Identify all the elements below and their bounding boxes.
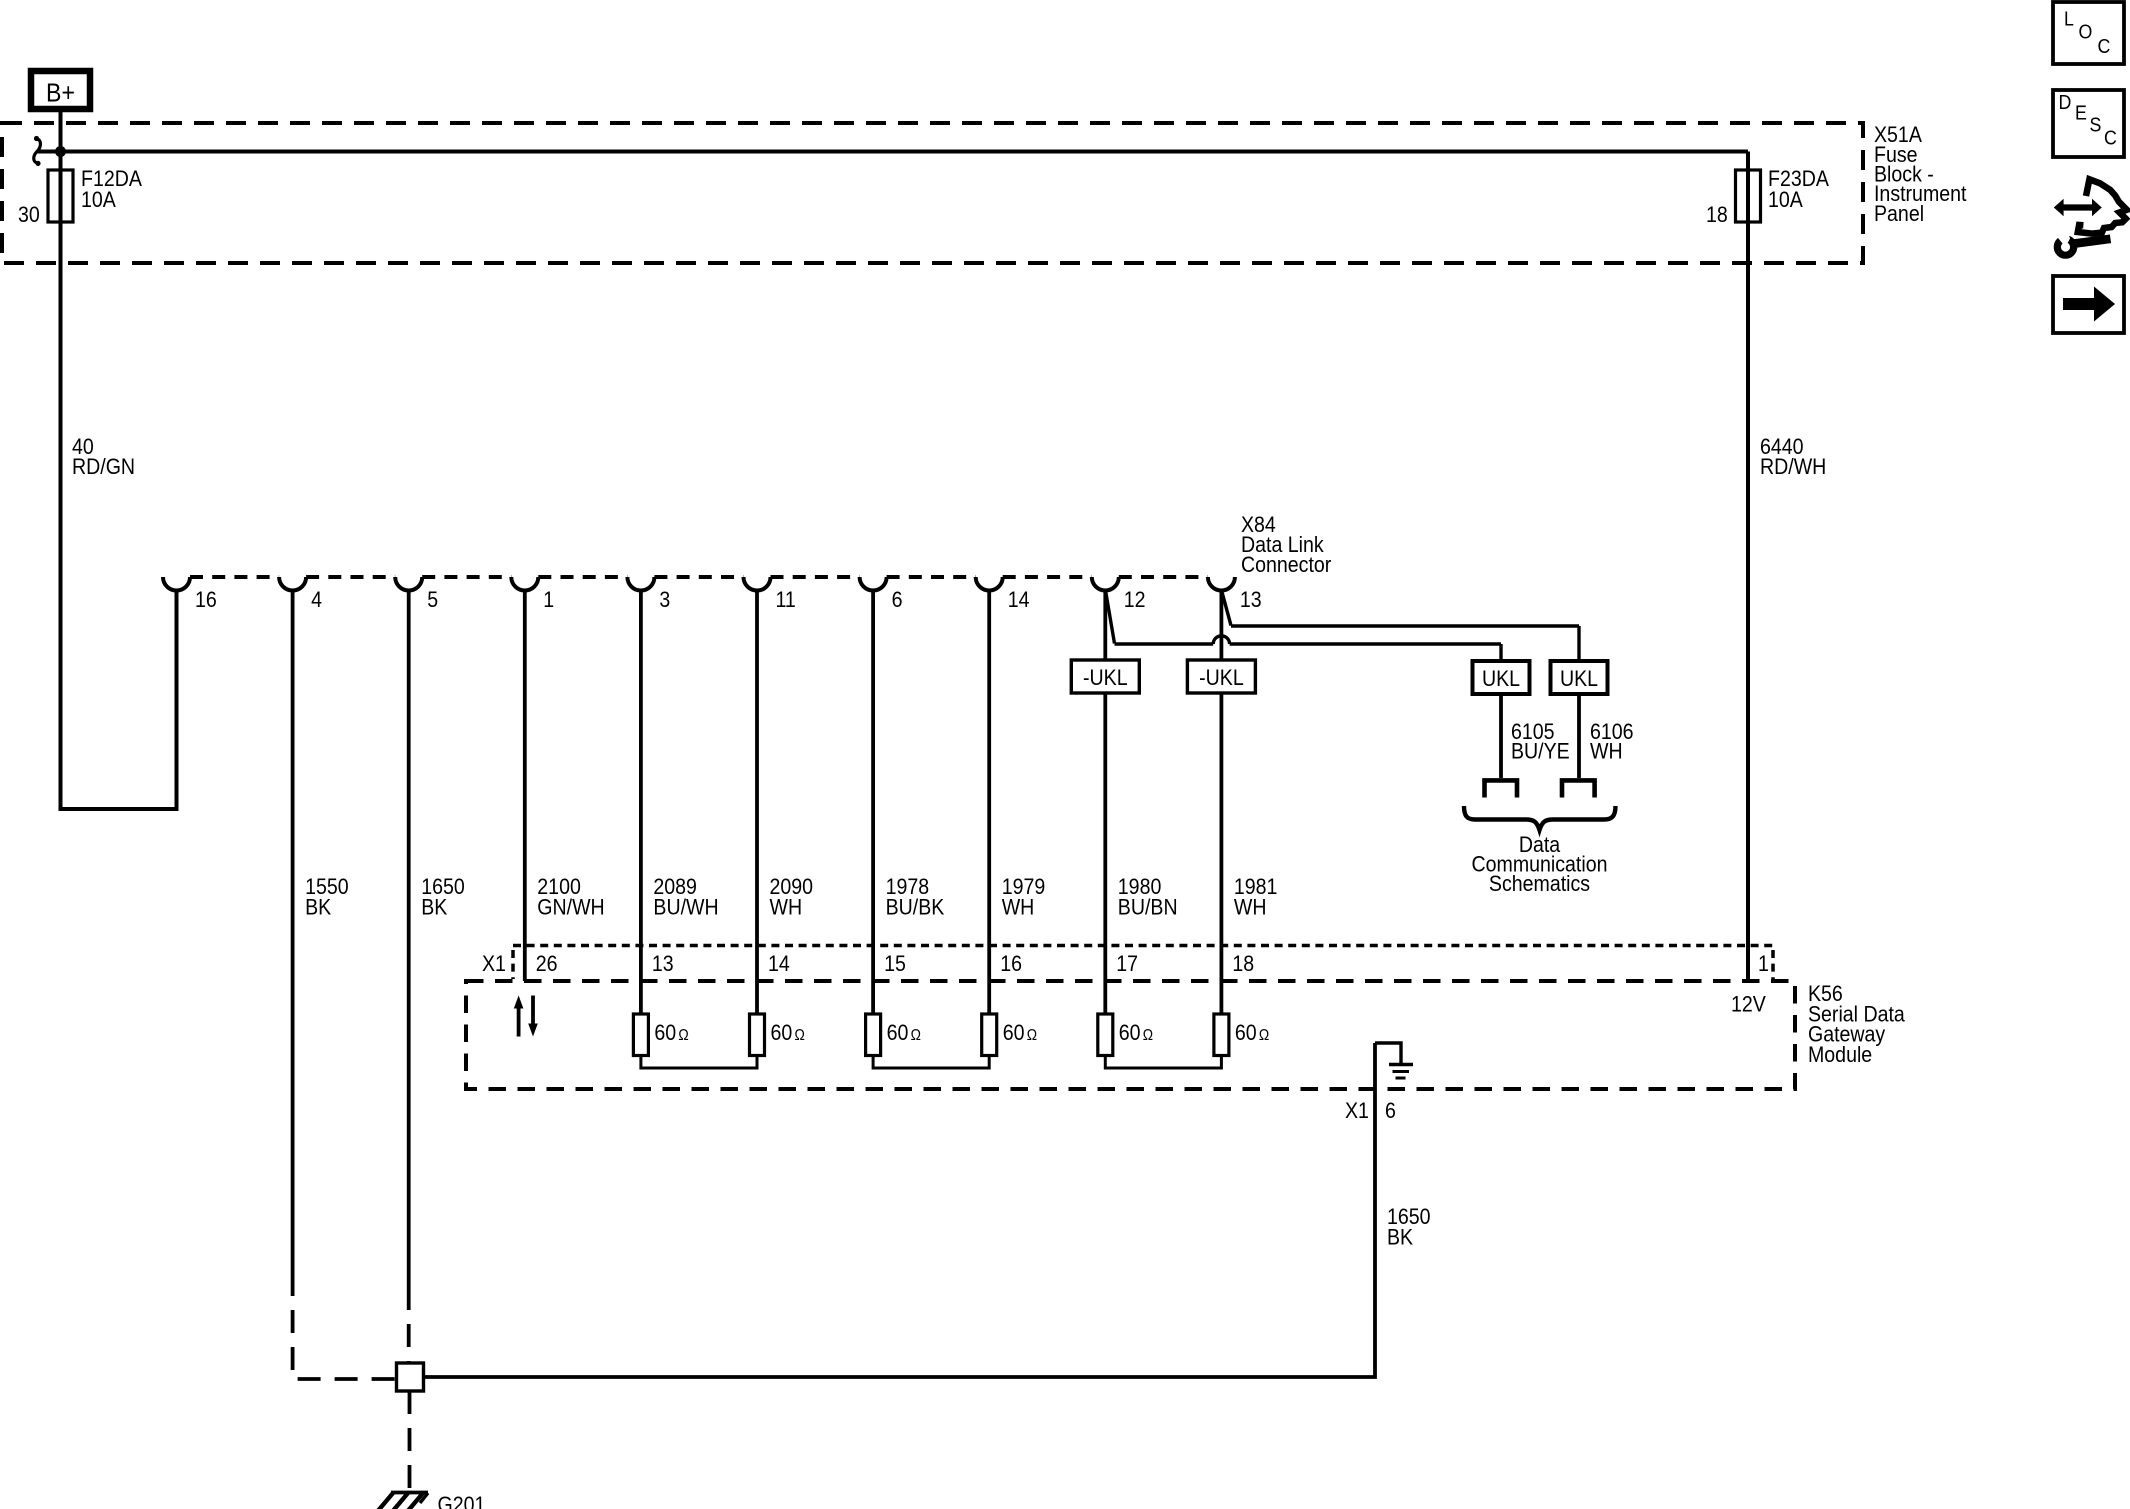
power symbol B+ (31, 71, 90, 109)
svg-text:X1: X1 (1345, 1099, 1369, 1123)
svg-text:S: S (2090, 115, 2102, 137)
wire main feed bus to F23DA (37, 150, 1748, 154)
wire terminating pair 17-18 (1105, 1056, 1221, 1069)
svg-text:13: 13 (1240, 588, 1262, 612)
X84 pin 14 terminal (976, 577, 1003, 591)
svg-text:18: 18 (1232, 952, 1254, 976)
note label Data Communication Schematics (1472, 833, 1608, 896)
wire branch from pin 13 to UKL (high speed) (1222, 591, 1579, 661)
svg-text:15: 15 (884, 952, 906, 976)
module K56 name label (1808, 982, 1905, 1067)
svg-text:C: C (2098, 36, 2111, 58)
svg-text:60: 60 (1235, 1021, 1257, 1045)
bidirectional data arrows in K56 (514, 996, 538, 1037)
wire 6440 RD/WH from fuse F23DA to K56 pin 1 (1746, 222, 1750, 981)
svg-text:30: 30 (18, 203, 40, 227)
svg-text:Ω: Ω (795, 1027, 805, 1044)
wire 1981 WH from X84 pin 13 to K56 pin 18 (1220, 590, 1224, 660)
wire 6105 BU/YE (1499, 694, 1503, 778)
svg-text:14: 14 (1008, 588, 1030, 612)
wire 1980 BU/BN from X84 pin 12 to K56 pin 17 (1103, 590, 1107, 660)
wire label 2089 BU/WH (653, 875, 718, 920)
wire label 1979 WH (1002, 875, 1046, 920)
wire label 2100 GN/WH (537, 875, 604, 920)
svg-text:16: 16 (195, 588, 217, 612)
wire 1550 BK dashed part to splice (293, 1273, 396, 1379)
svg-text:Ω: Ω (678, 1027, 688, 1044)
svg-text:60: 60 (1119, 1021, 1141, 1045)
network label -UKL on wire 1980 (1071, 660, 1139, 693)
svg-text:E: E (2075, 103, 2087, 125)
svg-text:26: 26 (536, 952, 558, 976)
svg-text:Connector: Connector (1241, 553, 1331, 577)
svg-text:11: 11 (776, 588, 796, 612)
wire 2089 BU/WH from X84 pin 3 to K56 (639, 590, 643, 1014)
svg-text:O: O (2079, 22, 2093, 44)
X84 pin 6 terminal (860, 577, 887, 591)
fuse F23DA 10A (1736, 167, 1830, 222)
wire 1650 BK from X84 pin 5 (solid part) (407, 590, 411, 1287)
connector X1 of K56 dotted line (513, 946, 1773, 980)
module K56 dashed box (466, 981, 1795, 1089)
X84 pin 16 terminal (163, 577, 190, 591)
svg-text:13: 13 (652, 952, 674, 976)
svg-text:-UKL: -UKL (1083, 666, 1128, 690)
resistor R5 60 ohm (pin 17) (1098, 1014, 1153, 1056)
wire 1979 WH from X84 pin 14 to K56 (987, 590, 991, 1014)
svg-text:L: L (2064, 9, 2074, 31)
svg-text:12: 12 (1124, 588, 1146, 612)
wire 2090 WH from X84 pin 11 to K56 (755, 590, 759, 1014)
svg-text:18: 18 (1706, 203, 1728, 227)
svg-text:10A: 10A (1768, 188, 1803, 212)
svg-text:X1: X1 (482, 952, 506, 976)
wire label 40 RD/GN (72, 435, 135, 479)
brace for data communication schematics (1464, 806, 1616, 830)
svg-text:GN/WH: GN/WH (537, 895, 604, 919)
junction dot at B+ feed (55, 146, 66, 157)
network label UKL (wire 6106) (1551, 661, 1608, 694)
clip symbol on feed (34, 136, 41, 166)
svg-text:60: 60 (771, 1021, 793, 1045)
svg-text:UKL: UKL (1560, 667, 1598, 691)
wire terminating pair 13-14 (641, 1056, 757, 1069)
svg-text:RD/GN: RD/GN (72, 455, 135, 479)
svg-text:12V: 12V (1731, 992, 1766, 1016)
network label UKL (wire 6105) (1473, 661, 1530, 694)
svg-text:WH: WH (770, 895, 803, 919)
X84 pin 11 terminal (744, 577, 771, 591)
svg-text:6: 6 (892, 588, 903, 612)
connector X84 dashed line (190, 575, 1208, 579)
icon wrench and pointer (2053, 179, 2127, 255)
svg-text:10A: 10A (81, 188, 116, 212)
fuse F12DA 10A (48, 167, 142, 222)
resistor R2 60 ohm (pin 14) (750, 1014, 805, 1056)
wire label 1650 BK (421, 875, 465, 920)
wire terminating pair 15-16 (873, 1056, 989, 1069)
svg-text:16: 16 (1000, 952, 1022, 976)
svg-text:Module: Module (1808, 1043, 1872, 1067)
wire label 2090 WH (770, 875, 814, 920)
svg-text:WH: WH (1234, 895, 1267, 919)
icon DESC box (2053, 90, 2124, 157)
wire hop over wire 1981 (1213, 636, 1229, 644)
icon forward arrow box (2053, 276, 2124, 333)
X84 pin 12 terminal (1092, 577, 1119, 591)
svg-text:-UKL: -UKL (1199, 666, 1244, 690)
svg-text:5: 5 (427, 588, 438, 612)
wire 40 RD/GN from fuse F12DA to DLC pin 16 (61, 222, 177, 809)
svg-text:BK: BK (1387, 1225, 1413, 1249)
svg-text:14: 14 (768, 952, 790, 976)
wire label 1981 WH (1234, 875, 1278, 920)
wire 1650 BK from K56 X1 pin 6 to splice (424, 1043, 1375, 1377)
resistor R1 60 ohm (pin 13) (633, 1014, 688, 1056)
svg-text:BU/BK: BU/BK (886, 895, 945, 919)
wire label 1978 BU/BK (886, 875, 945, 920)
svg-text:BK: BK (305, 895, 331, 919)
wire label 6106 WH (1590, 720, 1634, 764)
network label -UKL on wire 1981 (1187, 660, 1255, 693)
wire 6106 WH (1577, 694, 1581, 778)
svg-text:RD/WH: RD/WH (1760, 455, 1826, 479)
svg-text:1: 1 (543, 588, 554, 612)
svg-text:C: C (2104, 128, 2117, 150)
wire label 1650 BK (lower) (1387, 1205, 1431, 1250)
svg-text:60: 60 (1003, 1021, 1025, 1045)
svg-text:UKL: UKL (1482, 667, 1520, 691)
X84 pin 5 terminal (395, 577, 422, 591)
svg-text:Panel: Panel (1874, 202, 1924, 226)
svg-text:Ω: Ω (1027, 1027, 1037, 1044)
wire 1550 BK from X84 pin 4 (solid part) (291, 590, 295, 1273)
wire label 6105 BU/YE (1511, 720, 1570, 764)
wire label 6440 RD/WH (1760, 435, 1826, 479)
svg-text:4: 4 (311, 588, 322, 612)
svg-text:G201: G201 (438, 1493, 486, 1509)
svg-text:Ω: Ω (911, 1027, 921, 1044)
connector symbol on wire 6106 (1562, 780, 1595, 797)
svg-text:BU/BN: BU/BN (1118, 895, 1178, 919)
wire B+ to fuse F12DA (59, 112, 63, 170)
svg-text:60: 60 (887, 1021, 909, 1045)
resistor R4 60 ohm (pin 16) (982, 1014, 1037, 1056)
wire 1650 BK dashed part to splice (407, 1287, 411, 1363)
svg-text:Ω: Ω (1259, 1027, 1269, 1044)
wire 1978 BU/BK from X84 pin 6 to K56 (871, 590, 875, 1014)
svg-text:WH: WH (1590, 739, 1623, 763)
connector symbol on wire 6105 (1485, 780, 1518, 797)
ground G201 symbol (377, 1493, 428, 1509)
wire branch from pin 12 to UKL (low speed) (1106, 591, 1501, 661)
svg-text:BU/YE: BU/YE (1511, 739, 1570, 763)
wire 2100 GN/WH from X84 pin 1 to K56 pin 26 (523, 590, 527, 981)
splice S-node (397, 1363, 424, 1391)
internal ground of K56 (1375, 1043, 1413, 1078)
wire splice to ground G201 (dashed) (408, 1391, 412, 1489)
svg-text:D: D (2059, 92, 2072, 114)
svg-text:BK: BK (421, 895, 447, 919)
wire label 1550 BK (305, 875, 349, 920)
fuse block X51A name label (1874, 123, 1967, 226)
svg-text:60: 60 (654, 1021, 676, 1045)
connector X84 name label (1241, 513, 1331, 577)
svg-text:17: 17 (1116, 952, 1138, 976)
X84 pin 1 terminal (511, 577, 538, 591)
svg-text:B+: B+ (46, 79, 75, 108)
resistor R6 60 ohm (pin 18) (1214, 1014, 1269, 1056)
X84 pin 3 terminal (627, 577, 654, 591)
svg-text:3: 3 (659, 588, 670, 612)
fuse block X51A dashed box (2, 123, 1863, 263)
svg-text:6: 6 (1385, 1099, 1396, 1123)
svg-text:BU/WH: BU/WH (653, 895, 718, 919)
svg-text:Ω: Ω (1143, 1027, 1153, 1044)
svg-text:WH: WH (1002, 895, 1035, 919)
resistor R3 60 ohm (pin 15) (866, 1014, 921, 1056)
icon LOC box (2053, 2, 2124, 64)
svg-text:Schematics: Schematics (1489, 872, 1590, 896)
X84 pin 13 terminal (1208, 577, 1235, 591)
svg-text:1: 1 (1758, 952, 1769, 976)
X84 pin 4 terminal (279, 577, 306, 591)
wire label 1980 BU/BN (1118, 875, 1178, 920)
